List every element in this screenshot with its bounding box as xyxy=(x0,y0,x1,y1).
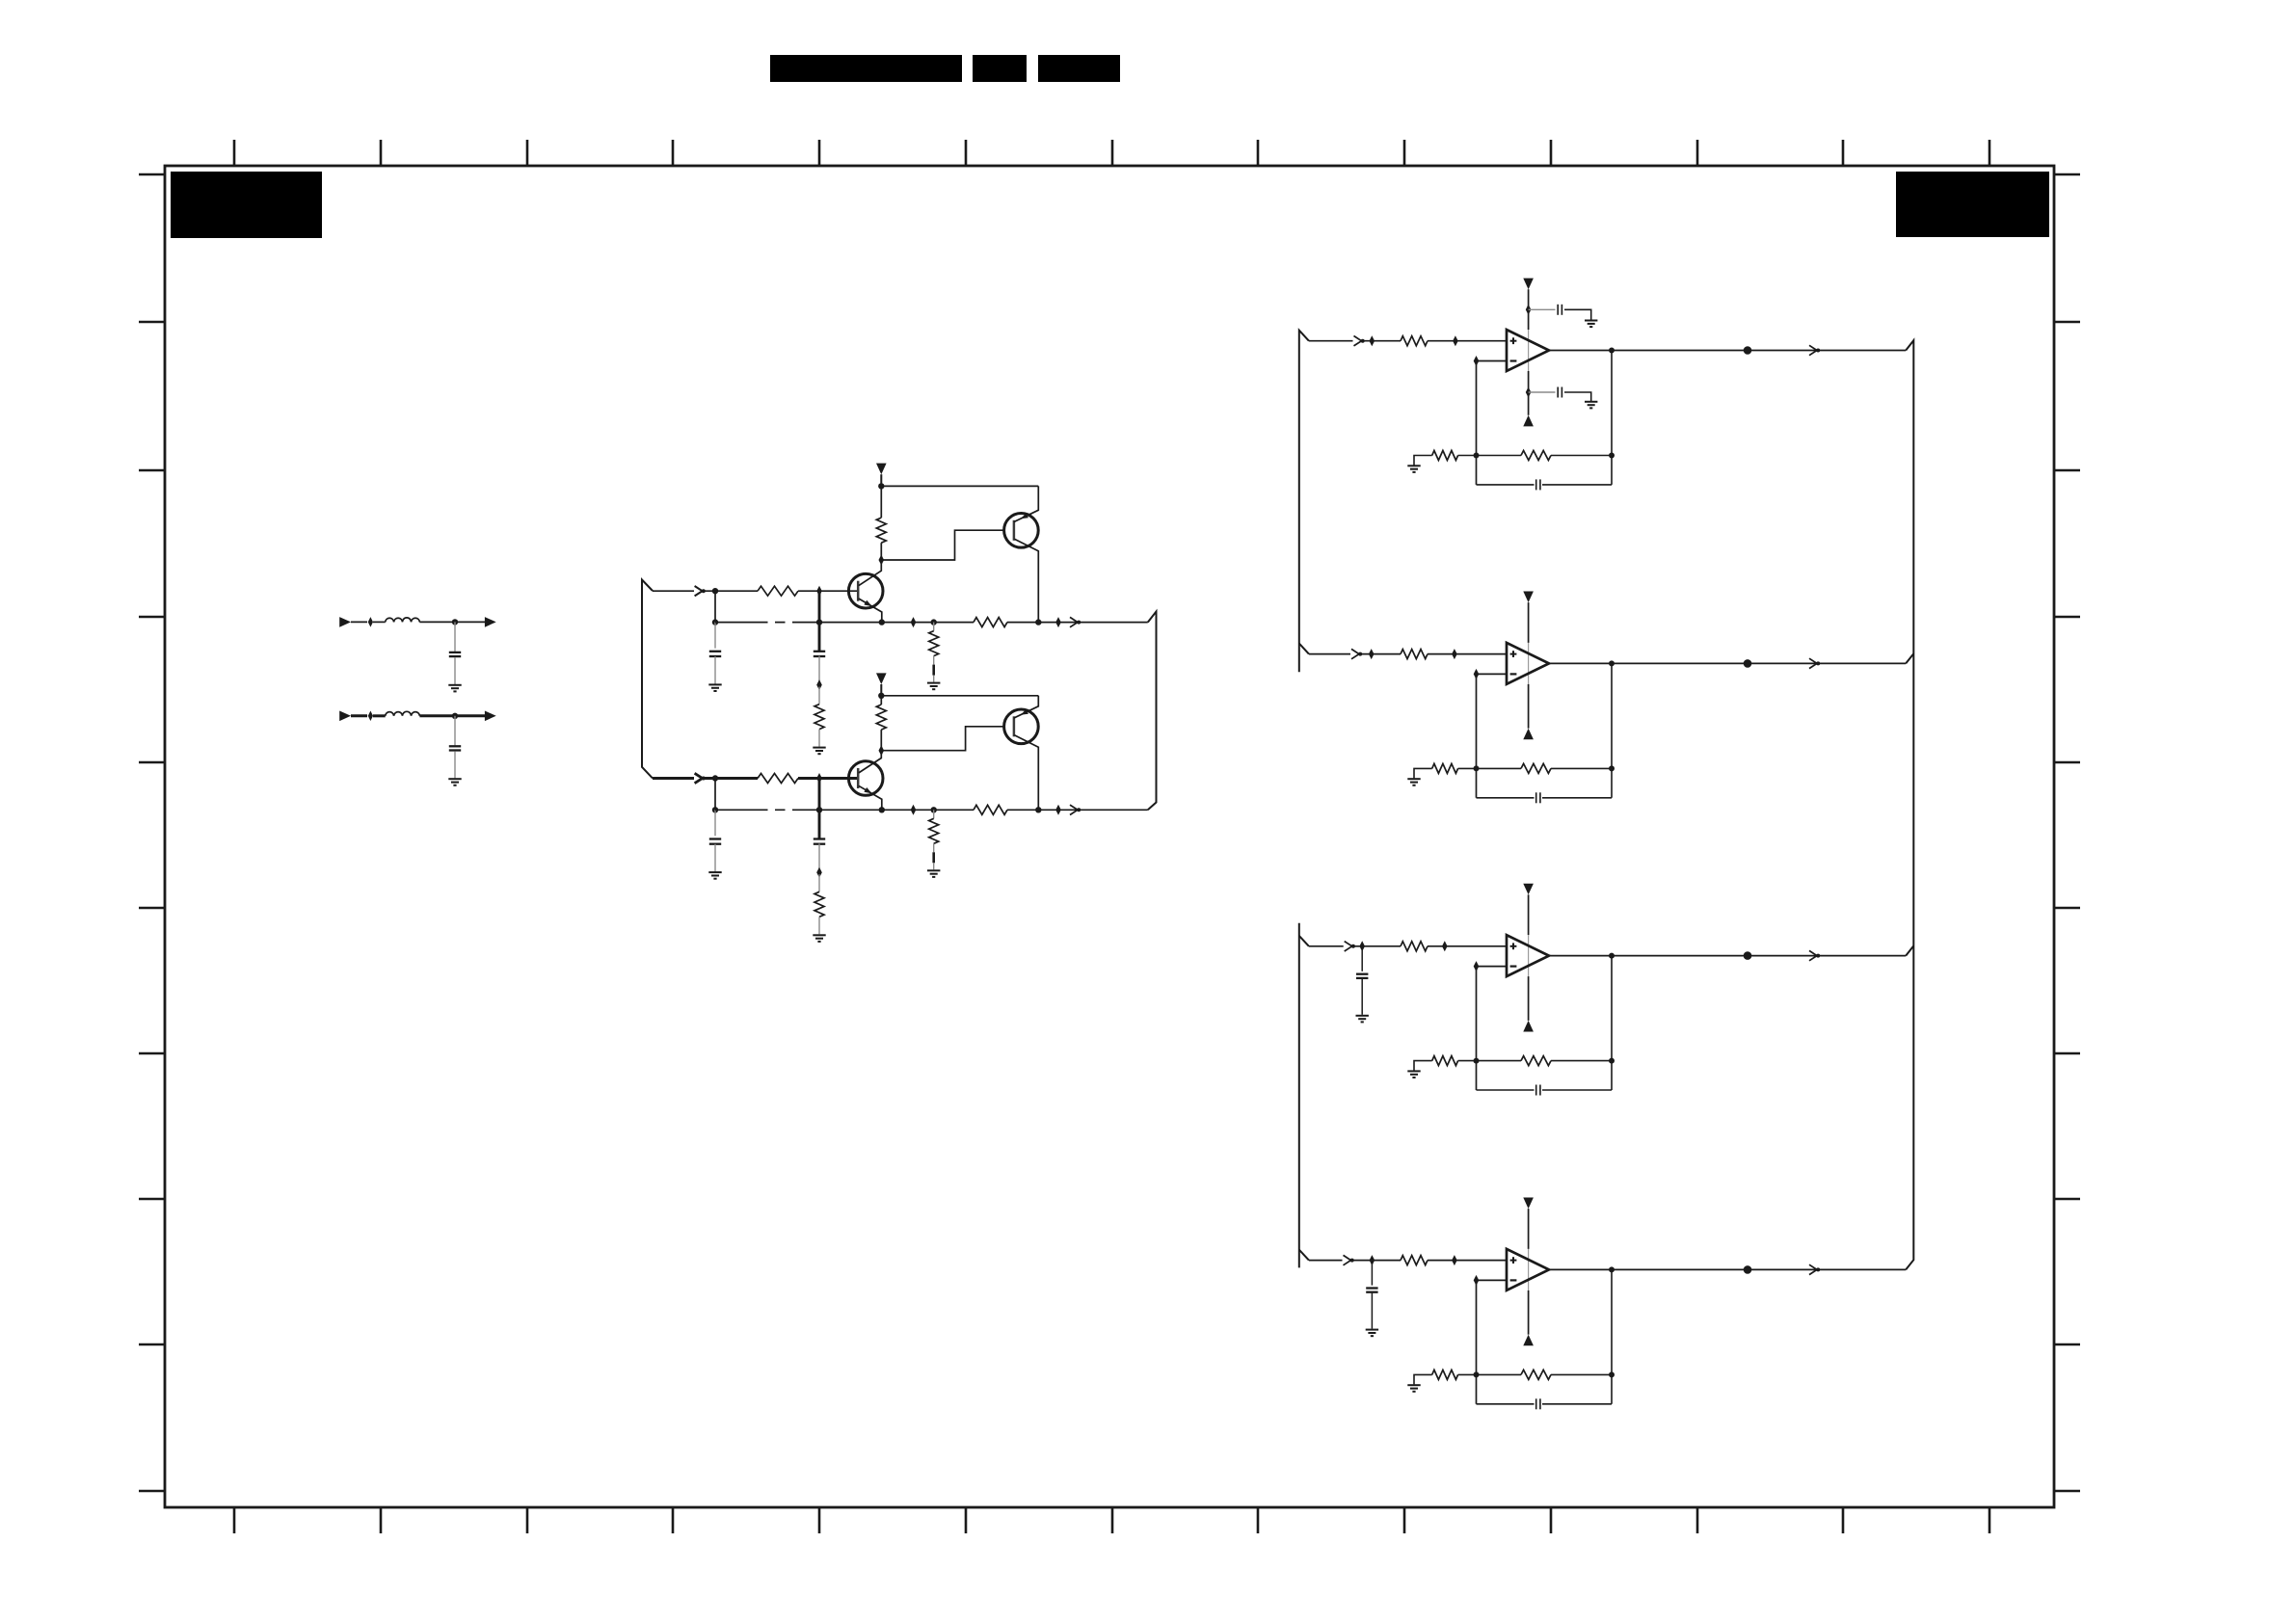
power arrow U1 negative xyxy=(1523,415,1534,427)
wire U4 fb cap row xyxy=(1477,1403,1535,1405)
wire U4 input xyxy=(1309,1260,1343,1262)
input connector arrow filter 2 xyxy=(339,711,351,722)
wire filter 2 in xyxy=(351,714,367,717)
wire U3 feedback left vertical xyxy=(1476,967,1478,1090)
node U2 input diamond 1 xyxy=(1369,649,1375,659)
resistor ch1 base series xyxy=(758,586,798,596)
wire U1 gnd-res wire xyxy=(1414,456,1432,466)
open arrow U3 output xyxy=(1809,950,1817,960)
wire ch2 col1 to cap xyxy=(714,810,716,836)
power arrow U4 positive xyxy=(1523,1198,1534,1210)
capacitor U2 feedback xyxy=(1535,792,1537,803)
wire ch1 input b xyxy=(705,590,758,592)
wire ch1 input xyxy=(653,590,694,592)
node U2 input diamond 2 xyxy=(1452,649,1457,659)
right bus bracket (op-amp outputs) xyxy=(1906,340,1913,1269)
wire U3 gnd-res wire xyxy=(1414,1061,1432,1071)
wire U3 fb row b xyxy=(1551,1060,1612,1062)
wire ch1 base col to resistor xyxy=(818,687,820,705)
ground U3 input shunt xyxy=(1356,1015,1369,1017)
resistor U1 input series xyxy=(1401,336,1428,346)
power arrow U4 negative xyxy=(1523,1335,1534,1346)
op-amp U1 minus sign xyxy=(1510,359,1517,361)
wire ch1 base col to ground xyxy=(818,730,820,747)
wire U3 input cap drop xyxy=(1361,946,1363,971)
wire U2 inverting input xyxy=(1477,673,1508,675)
wire ch1 base col down xyxy=(818,591,821,651)
wire ch1 base col mid xyxy=(818,656,820,683)
capacitor U1 feedback xyxy=(1535,479,1537,490)
op-amp U3 triangle xyxy=(1507,935,1549,976)
wire ch2 output line a xyxy=(798,809,974,811)
capacitor C2 shunt xyxy=(449,745,461,747)
wire ch2 dashed segment xyxy=(715,809,758,811)
op-amp U3 minus sign xyxy=(1510,965,1517,967)
wire ch2 node down xyxy=(714,779,716,811)
wire ch2 input c xyxy=(798,777,819,780)
junction ch1 shunt resistor node xyxy=(931,619,937,625)
junction ch1 collector-base node xyxy=(879,555,885,566)
wire U4 supply rail inner xyxy=(1528,1249,1530,1290)
wire filter 2 node to capacitor xyxy=(454,716,456,746)
wire U2 output feedback vertical xyxy=(1611,663,1613,797)
junction ch2 input node xyxy=(712,775,718,781)
redacted title bar 3 xyxy=(1038,55,1120,82)
open arrow U1 output xyxy=(1809,345,1817,355)
wire U1 vminus cap wire b xyxy=(1564,392,1591,401)
wire ch1 output line a xyxy=(798,622,974,624)
transistor ch2 Q-right circle xyxy=(1004,709,1039,744)
wire U1 fb cap row b xyxy=(1542,484,1612,486)
transistor ch2 Q-right emitter arrow xyxy=(1021,709,1028,715)
wire U2 input xyxy=(1309,653,1350,655)
wire U1 vminus cap wire xyxy=(1529,391,1556,393)
test point U3 output xyxy=(1744,951,1752,960)
ground U1 feedback xyxy=(1407,465,1420,466)
redacted title bar 2 xyxy=(973,55,1027,82)
redacted title bar 1 xyxy=(770,55,962,82)
capacitor U3 feedback xyxy=(1535,1085,1537,1096)
resistor U4 to ground xyxy=(1432,1370,1458,1379)
wire U3 input xyxy=(1309,945,1344,947)
junction node filter 1 xyxy=(452,619,458,625)
wire ch1 base to transistor xyxy=(819,590,858,592)
node U3 input diamond 1 xyxy=(1359,941,1365,951)
ground U3 feedback xyxy=(1407,1070,1420,1072)
wire U3 supply rail inner xyxy=(1528,935,1530,976)
wire U2 fb row a xyxy=(1458,767,1521,769)
wire ch1 shunt mid xyxy=(933,656,935,665)
transistor ch1 Q-right circle xyxy=(1004,514,1039,548)
resistor U3 feedback xyxy=(1521,1056,1551,1066)
wire U2 feedback left vertical xyxy=(1476,674,1478,797)
test point U4 output xyxy=(1744,1265,1752,1274)
wire U2 gnd-res wire xyxy=(1414,768,1432,778)
ground ch2 shunt xyxy=(927,869,940,871)
ground ch2 base col xyxy=(813,934,825,936)
ground U2 feedback xyxy=(1407,778,1420,780)
junction ch2 shunt resistor node xyxy=(931,807,937,812)
resistor ch1 base col xyxy=(814,705,824,730)
wire filter 1 in xyxy=(351,621,367,623)
resistor U3 to ground xyxy=(1432,1056,1458,1066)
ground ch2 col1 xyxy=(708,871,721,873)
resistor U2 feedback xyxy=(1521,763,1551,773)
wire U2 input b xyxy=(1361,653,1401,655)
node U4 inverting diamond xyxy=(1474,1275,1480,1286)
transistor ch1 Q-right emitter arrow xyxy=(1021,513,1028,519)
wire ch1 shunt low xyxy=(933,676,935,682)
open arrow ch1 input xyxy=(695,586,703,596)
transistor ch2 Q-right base bar xyxy=(1013,716,1016,736)
op-amp U2 minus sign xyxy=(1510,673,1517,675)
wire U1 input c xyxy=(1428,340,1507,342)
resistor U3 input series xyxy=(1401,942,1428,951)
wire ch1 input c xyxy=(798,590,819,592)
wire U2 supply rail inner xyxy=(1528,643,1530,684)
open arrow U2 input xyxy=(1351,649,1359,658)
junction U4 output node xyxy=(1609,1266,1615,1272)
left bus bracket (op-amps U3-U4) xyxy=(1298,923,1300,1268)
wire ch2 base col down xyxy=(818,779,821,839)
wire U4 supply rail lower xyxy=(1528,1290,1530,1335)
wire filter 1 node to capacitor xyxy=(454,622,456,652)
wire ch1 output line b xyxy=(1007,622,1148,624)
power arrow U3 negative xyxy=(1523,1021,1534,1032)
wire filter 2 capacitor to ground xyxy=(454,751,456,778)
input connector arrow filter 1 xyxy=(339,617,351,627)
wire U4 output xyxy=(1549,1268,1906,1270)
transistor ch1 Q-right collector xyxy=(1014,539,1038,622)
transistor ch1 Q-left collector xyxy=(859,560,882,586)
bottom border tick marks xyxy=(234,1507,1989,1533)
net tie ch2 shunt xyxy=(932,852,935,863)
wire ch1 power down xyxy=(880,474,882,486)
transistor ch1 Q-left emitter xyxy=(859,599,882,623)
inductor L1 xyxy=(386,618,420,623)
wire U2 supply rail upper xyxy=(1528,602,1530,643)
open arrow U2 output xyxy=(1809,658,1817,668)
node U4 input diamond 2 xyxy=(1452,1255,1457,1265)
transistor ch1 Q-left emitter arrow xyxy=(864,600,871,606)
wire U1 fb cap row xyxy=(1477,484,1535,486)
capacitor U1 vplus decoupling xyxy=(1557,305,1559,315)
resistor ch2 base col xyxy=(814,891,824,917)
junction U1 fb right node xyxy=(1609,453,1615,459)
wire ch1 col1 to cap xyxy=(714,623,716,649)
junction ch1 dashed-line node xyxy=(712,619,718,625)
wire ch2 base step xyxy=(881,727,1003,751)
wire ch2 power to resistor xyxy=(880,696,882,705)
ground filter 2 xyxy=(448,778,461,780)
resistor U4 input series xyxy=(1401,1256,1428,1265)
wire U1 fb row b xyxy=(1551,455,1612,457)
capacitor U4 input shunt xyxy=(1366,1287,1377,1289)
wire U4 feedback left vertical xyxy=(1476,1280,1478,1403)
node U1 input diamond 2 xyxy=(1453,335,1458,346)
wire filter 2 to inductor xyxy=(373,714,386,717)
power arrow ch2 xyxy=(876,673,887,684)
wire U4 inverting input xyxy=(1477,1279,1508,1281)
ground U1 vplus xyxy=(1585,320,1597,322)
junction ch1 input node xyxy=(712,588,718,594)
power arrow ch1 xyxy=(876,464,887,475)
resistor ch1 collector load xyxy=(876,518,886,543)
ground ch1 shunt xyxy=(927,682,940,684)
wire ch2 power feed right xyxy=(881,695,1038,697)
node U2 inverting diamond xyxy=(1474,669,1480,679)
wire U1 inverting input xyxy=(1477,360,1508,362)
node U3 input diamond 2 xyxy=(1442,941,1448,951)
transistor ch2 Q-left circle xyxy=(848,761,883,796)
wire ch1 resistor to base node xyxy=(880,543,882,560)
dashed wire ch1 xyxy=(758,622,798,624)
junction U2 feedback node xyxy=(1474,765,1480,771)
wire U4 fb cap row b xyxy=(1542,1403,1612,1405)
node U1 inverting diamond xyxy=(1474,356,1480,366)
right bus bracket (channel outputs) xyxy=(1148,612,1157,811)
left bus bracket (op-amps U1-U2) xyxy=(1299,331,1309,673)
ground U4 feedback xyxy=(1407,1384,1420,1386)
wire filter 2 out xyxy=(455,714,485,717)
redacted label top-left xyxy=(171,172,322,238)
junction U3 feedback node xyxy=(1474,1058,1480,1064)
wire filter 1 inductor to node xyxy=(419,621,455,623)
junction U2 output node xyxy=(1609,660,1615,666)
power arrow U3 positive xyxy=(1523,884,1534,895)
wire U3 supply rail lower xyxy=(1528,976,1530,1021)
open arrow U4 input xyxy=(1344,1255,1351,1264)
output connector arrow filter 1 xyxy=(485,617,496,627)
power arrow U2 positive xyxy=(1523,592,1534,603)
wire U1 supply rail lower xyxy=(1528,371,1530,415)
junction ch1 emitter node xyxy=(879,619,885,625)
wire ch1 shunt top xyxy=(933,623,935,631)
op-amp U4 plus sign xyxy=(1510,1260,1517,1262)
test point U1 output xyxy=(1744,346,1752,355)
resistor U1 feedback xyxy=(1521,451,1551,461)
resistor U4 feedback xyxy=(1521,1370,1551,1379)
ground ch1 base col xyxy=(813,747,825,749)
wire filter 1 out xyxy=(455,621,485,623)
junction U3 fb right node xyxy=(1609,1058,1615,1064)
wire U4 gnd-res wire xyxy=(1414,1374,1432,1384)
ground U4 input shunt xyxy=(1366,1329,1378,1331)
node ch2 output diamond 1 xyxy=(911,805,917,815)
wire ch2 base col to ground xyxy=(818,917,820,934)
capacitor C1 shunt xyxy=(449,652,461,653)
wire U3 fb cap row xyxy=(1477,1089,1535,1091)
wire ch2 base col to resistor xyxy=(818,874,820,891)
transistor ch1 Q-left base bar xyxy=(857,581,860,601)
wire ch2 col1 cap to gnd xyxy=(714,844,716,872)
ground ch1 col1 xyxy=(708,683,721,685)
wire ch1 base step xyxy=(881,530,1003,560)
wire filter 2 inductor to node xyxy=(419,714,455,717)
transistor ch1 Q-left circle xyxy=(848,573,883,608)
node ch2 output diamond 2 xyxy=(1055,805,1061,815)
ground U1 vminus xyxy=(1585,401,1597,403)
wire U3 output xyxy=(1549,955,1906,957)
wire U2 output xyxy=(1549,662,1906,664)
node U1 input diamond 1 xyxy=(1370,335,1375,346)
junction U2 fb right node xyxy=(1609,765,1615,771)
transistor ch2 Q-left base bar xyxy=(857,768,860,788)
wire U3 input c xyxy=(1428,945,1507,947)
wire ch2 output line b xyxy=(1007,809,1148,811)
node filter 1 in xyxy=(368,617,373,627)
resistor ch2 output series xyxy=(974,805,1007,814)
capacitor U4 feedback xyxy=(1535,1398,1537,1409)
junction ch2 base col diamond xyxy=(816,867,822,878)
resistor U2 input series xyxy=(1401,650,1428,659)
wire U3 output feedback vertical xyxy=(1611,956,1613,1090)
schematic sheet border frame xyxy=(165,166,2054,1507)
wire U1 input xyxy=(1309,340,1353,342)
wire U4 input cap drop xyxy=(1371,1261,1373,1286)
junction ch2 collector node xyxy=(1035,807,1041,812)
node U4 input diamond 1 xyxy=(1370,1255,1375,1265)
transistor ch2 Q-left collector xyxy=(859,751,882,773)
wire U4 supply rail upper xyxy=(1528,1209,1530,1249)
wire ch2 resistor to base node xyxy=(880,730,882,751)
resistor ch2 collector load xyxy=(876,705,886,730)
redacted label top-right xyxy=(1896,172,2049,237)
wire U2 fb cap row b xyxy=(1542,797,1612,799)
junction ch1 power node xyxy=(878,483,884,489)
wire ch2 power down xyxy=(880,684,882,696)
junction ch2 emitter node xyxy=(879,807,885,812)
wire ch2 shunt mid xyxy=(933,843,935,852)
capacitor U1 vminus decoupling xyxy=(1557,387,1559,398)
resistor ch2 base series xyxy=(758,774,798,784)
transistor ch2 Q-right collector xyxy=(1014,735,1038,811)
dashed wire ch2 xyxy=(758,809,798,811)
op-amp U3 plus sign xyxy=(1510,945,1517,947)
capacitor ch1 col1 xyxy=(709,651,721,652)
junction ch2 power node xyxy=(878,693,884,699)
wire U1 fb row a xyxy=(1458,455,1521,457)
capacitor ch1 base col xyxy=(814,651,825,652)
wire U2 supply rail lower xyxy=(1528,684,1530,729)
wire U1 vplus cap wire xyxy=(1529,308,1556,310)
op-amp U2 triangle xyxy=(1507,643,1549,684)
junction U4 feedback node xyxy=(1474,1371,1480,1377)
wire ch2 shunt top xyxy=(933,810,935,818)
resistor ch1 shunt xyxy=(929,631,939,656)
capacitor ch2 base col xyxy=(814,838,825,839)
wire U4 fb row b xyxy=(1551,1373,1612,1375)
power arrow U1 positive xyxy=(1523,279,1534,290)
junction ch1 collector node xyxy=(1035,619,1041,625)
op-amp U1 plus sign xyxy=(1510,340,1517,342)
left bus bracket (channel inputs) xyxy=(642,580,653,779)
wire U1 input b xyxy=(1364,340,1402,342)
wire U3 input b xyxy=(1354,945,1401,947)
junction U1 feedback node xyxy=(1474,453,1480,459)
open arrow ch1 output xyxy=(1070,617,1078,626)
resistor ch1 output series xyxy=(974,618,1007,627)
wire U1 supply rail inner xyxy=(1528,330,1530,371)
junction ch2 base col node xyxy=(816,807,822,812)
op-amp U4 minus sign xyxy=(1510,1279,1517,1281)
open arrow U4 output xyxy=(1809,1264,1817,1274)
wire U1 supply rail upper xyxy=(1528,289,1530,330)
transistor ch2 Q-left emitter xyxy=(859,785,882,810)
wire U4 input cap to gnd xyxy=(1371,1293,1373,1329)
junction U4 fb right node xyxy=(1609,1371,1615,1377)
junction ch2 dashed-line node xyxy=(712,807,718,812)
wire U4 input b xyxy=(1353,1260,1402,1262)
wire ch2 shunt low xyxy=(933,863,935,869)
node ch1 output diamond 2 xyxy=(1055,617,1061,627)
wire ch2 input xyxy=(653,777,694,780)
wire U2 input c xyxy=(1428,653,1507,655)
open arrow U1 input xyxy=(1354,336,1362,346)
wire ch2 input b xyxy=(705,777,758,780)
ground filter 1 xyxy=(448,684,461,686)
junction ch1 base node xyxy=(816,586,822,597)
wire U1 vplus cap wire b xyxy=(1564,309,1591,319)
capacitor U3 input shunt xyxy=(1356,973,1368,975)
wire U1 output xyxy=(1549,350,1906,352)
resistor ch2 shunt xyxy=(929,818,939,843)
junction ch2 base node xyxy=(816,773,822,784)
op-amp U4 triangle xyxy=(1507,1249,1549,1290)
power arrow U2 negative xyxy=(1523,729,1534,740)
wire ch1 power feed right xyxy=(881,485,1038,487)
inductor L2 xyxy=(386,711,420,716)
wire ch2 base col mid xyxy=(818,843,820,870)
wire U2 fb cap row xyxy=(1477,797,1535,799)
wire U4 output feedback vertical xyxy=(1611,1269,1613,1403)
wire U3 input cap to gnd xyxy=(1361,979,1363,1015)
junction U3 output node xyxy=(1609,953,1615,959)
transistor ch2 Q-right emitter xyxy=(1014,696,1038,718)
junction node filter 2 xyxy=(452,713,458,719)
top border tick marks xyxy=(234,140,1989,166)
output connector arrow filter 2 xyxy=(485,711,496,722)
wire U4 input c xyxy=(1428,1260,1507,1262)
open arrow ch2 input xyxy=(695,773,703,783)
wire U2 fb row b xyxy=(1551,767,1612,769)
wire U1 feedback left vertical xyxy=(1476,361,1478,485)
wire ch1 power to resistor xyxy=(880,486,882,518)
wire ch2 base to transistor xyxy=(819,777,858,780)
wire U3 inverting input xyxy=(1477,966,1508,968)
resistor U2 to ground xyxy=(1432,763,1458,773)
open arrow U3 input xyxy=(1345,942,1352,951)
wire ch1 node down xyxy=(714,591,716,622)
open arrow ch2 output xyxy=(1070,805,1078,814)
capacitor ch2 col1 xyxy=(709,838,721,839)
op-amp U1 triangle xyxy=(1507,330,1549,371)
op-amp U2 plus sign xyxy=(1510,653,1517,655)
node filter 2 in xyxy=(368,711,373,722)
junction ch1 base col diamond xyxy=(816,679,822,690)
wire U4 fb row a xyxy=(1458,1373,1521,1375)
transistor ch1 Q-right emitter xyxy=(1014,486,1038,521)
left border tick marks xyxy=(139,174,165,1491)
right border tick marks xyxy=(2054,174,2080,1491)
wire ch1 dashed segment xyxy=(715,622,758,624)
transistor ch1 Q-right base bar xyxy=(1013,520,1016,541)
net tie ch1 shunt xyxy=(932,665,935,676)
wire ch1 col1 cap to gnd xyxy=(714,656,716,684)
transistor ch2 Q-left emitter arrow xyxy=(864,787,871,793)
junction ch1 base col node xyxy=(816,619,822,625)
junction U1 output node xyxy=(1609,348,1615,354)
